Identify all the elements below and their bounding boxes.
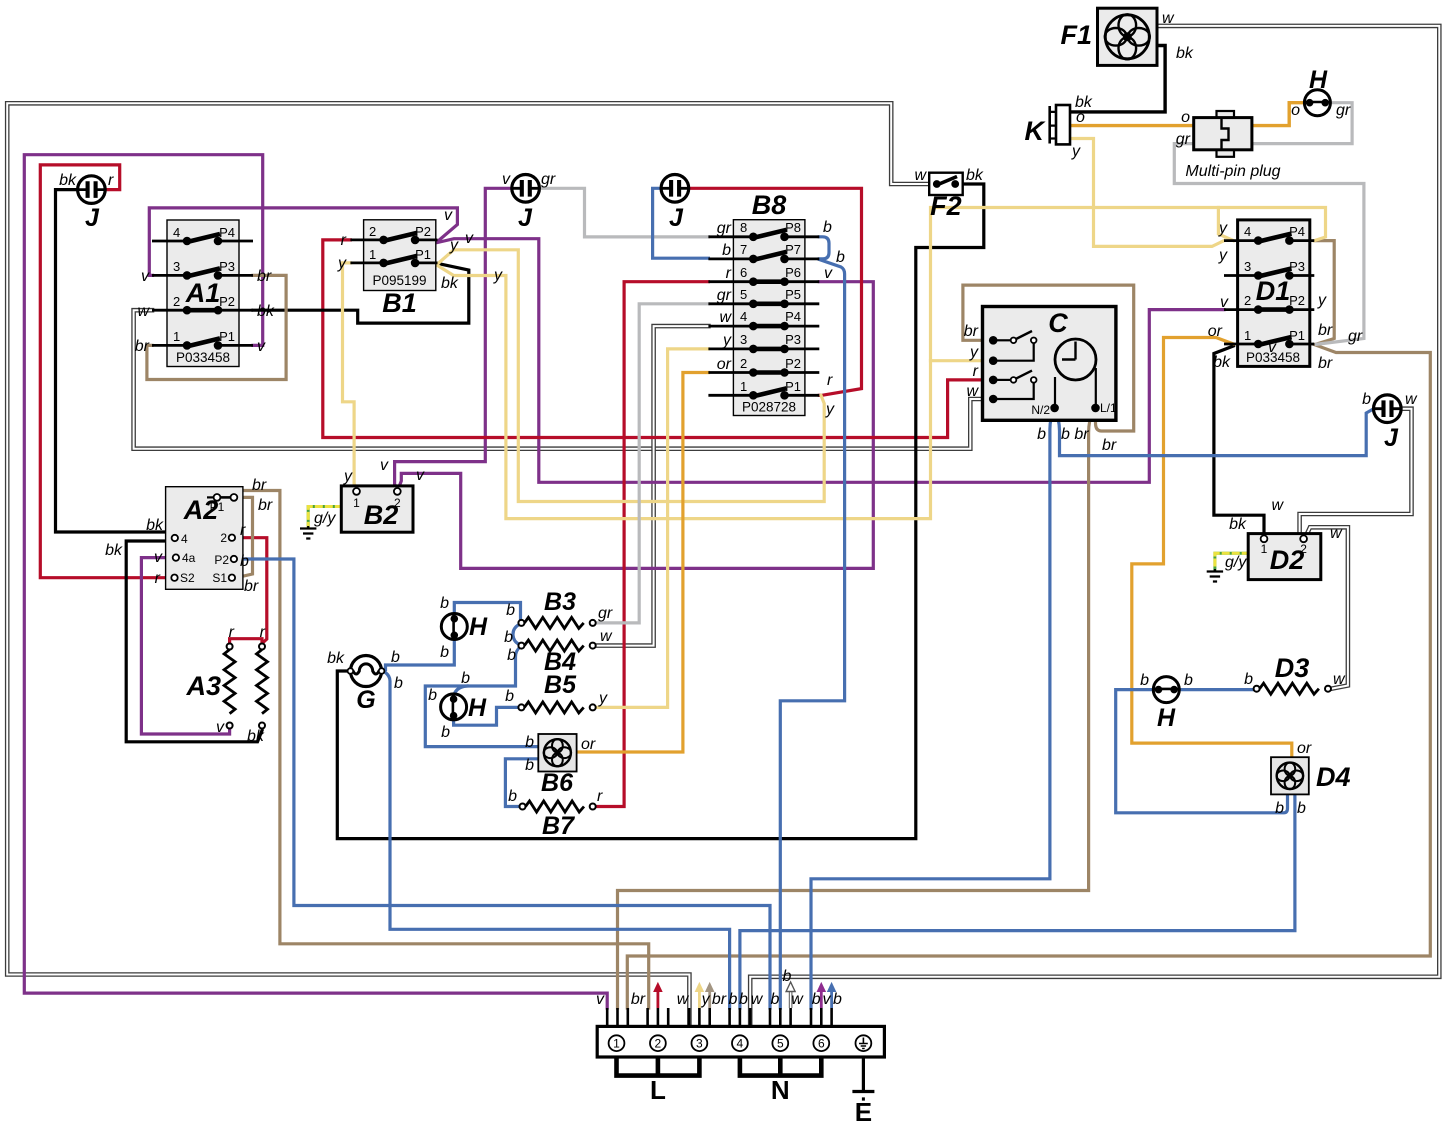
wire purple A3-left-bottom to A2-4a xyxy=(141,558,229,734)
svg-text:w: w xyxy=(791,991,804,1008)
svg-text:y: y xyxy=(449,237,459,254)
svg-text:4: 4 xyxy=(181,532,188,546)
svg-text:bk: bk xyxy=(441,275,459,292)
resistor B4 xyxy=(518,640,595,651)
svg-text:B5: B5 xyxy=(544,671,577,699)
svg-text:v: v xyxy=(465,230,474,247)
svg-text:2: 2 xyxy=(220,531,227,545)
svg-text:b: b xyxy=(508,788,517,805)
wire brown A2-P1 to terminal 2 xyxy=(236,491,649,1009)
svg-text:b: b xyxy=(391,649,400,666)
wire brown C-L/1 loop to C-br xyxy=(963,285,1134,431)
svg-text:bk: bk xyxy=(146,517,164,534)
svg-text:3: 3 xyxy=(740,332,747,347)
svg-text:b: b xyxy=(783,968,792,985)
svg-text:b: b xyxy=(729,991,738,1008)
svg-text:br: br xyxy=(1318,322,1333,339)
fan D4 xyxy=(1271,757,1309,794)
svg-text:r: r xyxy=(726,265,732,282)
wire blue D4-right to terminal 4 xyxy=(740,794,1295,1008)
switch block B8 xyxy=(708,220,819,416)
lamp J2 xyxy=(512,175,540,203)
svg-text:r: r xyxy=(260,624,266,641)
bracket L terminals 1-3 xyxy=(617,1057,700,1076)
svg-text:B7: B7 xyxy=(542,812,575,840)
timer box C xyxy=(983,307,1116,421)
svg-text:4: 4 xyxy=(737,1037,744,1051)
svg-text:y: y xyxy=(701,991,711,1008)
svg-text:b: b xyxy=(1362,391,1371,408)
svg-text:N/2: N/2 xyxy=(1031,403,1050,417)
svg-text:gr: gr xyxy=(541,171,556,188)
svg-text:w: w xyxy=(1333,671,1346,688)
svg-text:P2: P2 xyxy=(785,356,801,371)
svg-text:v: v xyxy=(141,268,150,285)
svg-text:A1: A1 xyxy=(185,278,221,308)
svg-text:b: b xyxy=(440,595,449,612)
svg-text:b: b xyxy=(1244,671,1253,688)
svg-text:1: 1 xyxy=(369,247,376,262)
wire orange B8-row2 to B6 xyxy=(577,373,709,753)
wire blue G to H1-bottom xyxy=(386,634,455,670)
svg-text:y: y xyxy=(722,332,732,349)
svg-text:gr: gr xyxy=(598,605,613,622)
svg-text:y: y xyxy=(969,344,979,361)
wire purple B1-P2 to D1-pin2 xyxy=(438,239,1225,483)
svg-text:b: b xyxy=(722,242,731,259)
switch block D1 xyxy=(1224,220,1314,367)
svg-text:b br: b br xyxy=(1061,426,1089,443)
wire grey H-lamp to plug right xyxy=(1252,103,1352,144)
svg-text:E: E xyxy=(855,1097,872,1124)
svg-text:w: w xyxy=(1330,525,1343,542)
svg-text:b: b xyxy=(525,734,534,751)
wire blue C-N/2 to terminal 6 xyxy=(811,409,1055,1008)
svg-text:4: 4 xyxy=(740,309,747,324)
svg-text:P1: P1 xyxy=(210,500,225,514)
svg-text:w: w xyxy=(137,303,150,320)
wire blue G to terminal 4 xyxy=(386,673,730,1009)
svg-text:w: w xyxy=(1405,391,1418,408)
svg-text:bk: bk xyxy=(966,167,984,184)
box D2 xyxy=(1248,534,1321,580)
svg-text:br: br xyxy=(252,477,267,494)
wire w B8-row4 to B4-right (double line) xyxy=(597,326,709,645)
svg-text:P2: P2 xyxy=(415,224,431,239)
svg-text:r: r xyxy=(973,363,979,380)
svg-text:b: b xyxy=(504,629,513,646)
svg-text:b: b xyxy=(1275,800,1284,817)
svg-text:b: b xyxy=(394,675,403,692)
svg-text:v: v xyxy=(216,719,225,736)
svg-text:bk: bk xyxy=(1213,354,1231,371)
wire yellow B1-P1 to D1-P4 (long top loop) xyxy=(438,208,1326,519)
svg-text:o: o xyxy=(1181,109,1190,126)
wire grey plug-gr loop to D1-P1 xyxy=(1174,144,1364,345)
svg-text:1: 1 xyxy=(1244,328,1251,343)
wire yellow B1-P1 to B8-P1 xyxy=(438,250,825,502)
wire blue C-N/2 to J4 xyxy=(1055,409,1374,456)
svg-text:B3: B3 xyxy=(544,588,576,616)
svg-text:w: w xyxy=(1162,10,1175,27)
wire w D2-2 to D3-right (double line) xyxy=(1306,527,1348,688)
svg-text:v: v xyxy=(502,171,511,188)
arrow white at terminal 5 xyxy=(786,982,795,1008)
svg-text:5: 5 xyxy=(740,287,747,302)
svg-text:b: b xyxy=(1297,800,1306,817)
arrow blue at terminal 6 right xyxy=(828,983,836,1008)
svg-text:G: G xyxy=(356,686,375,714)
svg-text:H: H xyxy=(1157,704,1176,732)
svg-text:v: v xyxy=(416,467,425,484)
svg-text:P2: P2 xyxy=(214,553,229,567)
svg-text:1: 1 xyxy=(1261,542,1268,556)
svg-text:br: br xyxy=(258,497,273,514)
svg-text:w: w xyxy=(1271,497,1284,514)
svg-text:P6: P6 xyxy=(785,265,801,280)
wire yellow B8-row3 to B5-right xyxy=(596,349,708,708)
svg-text:v: v xyxy=(1268,339,1277,356)
wire black F2 to G (big loop) xyxy=(337,184,984,839)
svg-text:b: b xyxy=(1184,672,1193,689)
wire blue B3-left B4-left arc xyxy=(513,625,520,645)
wire w J4 to D2-2 (double line) xyxy=(1300,409,1412,534)
svg-text:L: L xyxy=(650,1075,666,1105)
svg-text:y: y xyxy=(337,255,347,272)
svg-text:D1: D1 xyxy=(1256,276,1291,306)
svg-text:bk: bk xyxy=(1176,45,1194,62)
svg-text:gr: gr xyxy=(1176,131,1191,148)
svg-text:P8: P8 xyxy=(785,220,801,235)
svg-text:bk: bk xyxy=(59,172,77,189)
wire purple B2-2 to B8-P6 xyxy=(399,282,873,569)
svg-text:g/y: g/y xyxy=(1225,554,1247,571)
svg-text:br: br xyxy=(712,991,727,1008)
svg-text:B8: B8 xyxy=(752,190,787,220)
svg-text:2: 2 xyxy=(369,224,376,239)
svg-text:P028728: P028728 xyxy=(742,400,796,415)
wire grey B8-row5 to B3-right xyxy=(596,304,708,623)
svg-text:w: w xyxy=(677,991,690,1008)
wire blue B4-left to H2-top and B6 xyxy=(425,647,538,747)
svg-text:P5: P5 xyxy=(785,287,801,302)
svg-text:L/1: L/1 xyxy=(1100,401,1117,415)
svg-text:y: y xyxy=(1317,292,1327,309)
svg-text:r: r xyxy=(341,232,347,249)
svg-text:r: r xyxy=(240,522,246,539)
svg-text:2: 2 xyxy=(655,1037,662,1051)
lamp J3 xyxy=(661,175,689,203)
svg-text:or: or xyxy=(1297,740,1312,757)
svg-text:w: w xyxy=(719,309,732,326)
svg-text:P4: P4 xyxy=(1289,224,1305,239)
svg-text:P1: P1 xyxy=(1289,328,1305,343)
svg-text:g/y: g/y xyxy=(314,510,336,527)
svg-text:D3: D3 xyxy=(1275,653,1310,683)
switch block A1 xyxy=(152,220,253,367)
svg-text:2: 2 xyxy=(740,356,747,371)
svg-text:1: 1 xyxy=(613,1037,620,1051)
svg-text:H: H xyxy=(1309,66,1328,94)
svg-text:6: 6 xyxy=(818,1037,825,1051)
ground symbol at D2 xyxy=(1207,569,1223,582)
svg-text:bk: bk xyxy=(327,650,345,667)
svg-text:N: N xyxy=(771,1075,790,1105)
svg-text:S2: S2 xyxy=(180,571,195,585)
svg-text:P3: P3 xyxy=(785,332,801,347)
svg-text:bk: bk xyxy=(247,728,265,745)
svg-text:or: or xyxy=(1208,323,1223,340)
svg-text:v: v xyxy=(596,991,605,1008)
wire black J1 to A2-4 xyxy=(56,190,175,536)
svg-text:2: 2 xyxy=(1300,542,1307,556)
svg-text:bk: bk xyxy=(257,303,275,320)
svg-text:P4: P4 xyxy=(785,309,801,324)
svg-text:3: 3 xyxy=(696,1037,703,1051)
wire yellow branch to C-y input xyxy=(931,359,990,362)
svg-text:F2: F2 xyxy=(930,191,962,221)
svg-text:bk: bk xyxy=(1229,516,1247,533)
svg-text:D2: D2 xyxy=(1270,545,1305,575)
wire brown C-L/1 to terminal 1 xyxy=(618,410,1094,1008)
svg-text:P3: P3 xyxy=(1289,259,1305,274)
svg-text:y: y xyxy=(1218,220,1228,237)
svg-text:y: y xyxy=(343,468,353,485)
svg-text:gr: gr xyxy=(1348,328,1363,345)
svg-text:w: w xyxy=(914,167,927,184)
svg-text:br: br xyxy=(1318,355,1333,372)
svg-text:8: 8 xyxy=(740,220,747,235)
svg-text:v: v xyxy=(154,549,163,566)
svg-text:1: 1 xyxy=(173,329,180,344)
wire grey J2 to B8-row8 xyxy=(540,188,709,237)
svg-text:r: r xyxy=(229,624,235,641)
svg-text:b: b xyxy=(739,991,748,1008)
svg-text:b: b xyxy=(771,991,780,1008)
lamp J1 xyxy=(78,176,106,204)
svg-text:b: b xyxy=(461,670,470,687)
ground E below block xyxy=(852,1057,874,1099)
fan B6 xyxy=(538,734,576,772)
wire purple J2 to B2-2 xyxy=(395,188,512,488)
terminal stubs xyxy=(607,1008,831,1026)
svg-text:r: r xyxy=(827,372,833,389)
svg-text:b: b xyxy=(823,219,832,236)
wire black F1 to K xyxy=(1071,46,1166,112)
wire blue A2-P2 to terminal 5 xyxy=(238,559,770,1008)
svg-text:b: b xyxy=(506,602,515,619)
svg-text:br: br xyxy=(135,338,150,355)
svg-text:B1: B1 xyxy=(382,288,417,318)
svg-text:r: r xyxy=(108,172,114,189)
wire brown A2-P1 to A2-S1 loop xyxy=(236,497,253,577)
svg-text:P095199: P095199 xyxy=(372,273,426,288)
svg-text:J: J xyxy=(518,204,533,232)
wire purple B1-P2 to A1-pin3 xyxy=(149,208,457,276)
svg-text:b: b xyxy=(525,757,534,774)
svg-text:J: J xyxy=(85,204,100,232)
resistor B7 xyxy=(520,801,596,812)
wire red J3 to B8-P1 xyxy=(689,188,862,395)
arrow yellow at terminal 3 xyxy=(695,983,703,1008)
svg-text:v: v xyxy=(444,207,453,224)
wire orange D1-pin1 to D4 xyxy=(1132,338,1292,758)
wire white frame right: F1-w to terminal 4 (double line) xyxy=(750,26,1439,1026)
svg-text:b: b xyxy=(440,644,449,661)
wire yellow D1-pin4 branch from top loop xyxy=(1218,208,1233,241)
svg-text:P4: P4 xyxy=(219,225,235,240)
bracket N terminals 4-6 xyxy=(740,1057,821,1076)
svg-text:y: y xyxy=(598,690,608,707)
svg-text:P7: P7 xyxy=(785,242,801,257)
svg-text:F1: F1 xyxy=(1060,20,1092,50)
lamp H1 xyxy=(441,614,467,640)
wire yellow K-y to D1-pin4 xyxy=(1071,139,1225,247)
svg-text:v: v xyxy=(1220,294,1229,311)
svg-text:r: r xyxy=(597,788,603,805)
resistors A3 xyxy=(224,644,267,729)
svg-text:gr: gr xyxy=(1336,102,1351,119)
multi-pin plug xyxy=(1194,111,1252,157)
svg-text:or: or xyxy=(717,356,732,373)
svg-text:K: K xyxy=(1025,116,1047,146)
svg-text:v: v xyxy=(380,457,389,474)
wire black A1-P2 to B1-P1 xyxy=(253,264,469,324)
svg-text:C: C xyxy=(1048,308,1068,338)
svg-text:v: v xyxy=(257,338,266,355)
svg-text:2: 2 xyxy=(173,294,180,309)
svg-text:bk: bk xyxy=(105,542,123,559)
wire red B8-row6 to B7-right xyxy=(596,282,708,807)
svg-text:B6: B6 xyxy=(541,769,574,797)
wire brown D1-P4 to D1-P1 loop xyxy=(1314,241,1334,344)
wire blue H2-bottom to B5-left xyxy=(454,707,519,725)
svg-text:1: 1 xyxy=(740,379,747,394)
wire purple A1-P1 to terminal 1 (left big loop) xyxy=(24,155,607,1008)
wire g/y ground at D2 xyxy=(1215,553,1248,569)
svg-text:6: 6 xyxy=(740,265,747,280)
lamp H top right xyxy=(1304,90,1330,116)
fan motor F1 xyxy=(1098,8,1158,65)
ground symbol at B2 xyxy=(300,526,316,539)
wire brown D1-P1 to terminal 1 xyxy=(627,345,1430,1008)
arrow violet at terminal 6 xyxy=(817,983,825,1008)
svg-text:b: b xyxy=(428,687,437,704)
lamp H right xyxy=(1153,677,1179,703)
wire brown A1-P3 to A1-pin1 loop xyxy=(147,275,286,379)
svg-text:J: J xyxy=(669,204,684,232)
resistor D3 xyxy=(1254,683,1331,694)
lamp G xyxy=(348,656,385,687)
svg-text:4a: 4a xyxy=(182,551,196,565)
svg-text:3: 3 xyxy=(1244,259,1251,274)
svg-text:P1: P1 xyxy=(785,379,801,394)
svg-text:y: y xyxy=(825,401,835,418)
svg-text:7: 7 xyxy=(740,242,747,257)
svg-text:4: 4 xyxy=(1244,224,1251,239)
wire g/y ground at B2 xyxy=(308,507,341,527)
svg-text:w: w xyxy=(751,991,764,1008)
wire blue H2-top branch xyxy=(454,686,467,700)
relay box A2 xyxy=(166,487,243,590)
svg-text:P3: P3 xyxy=(219,259,235,274)
svg-text:b: b xyxy=(505,688,514,705)
svg-text:J: J xyxy=(1384,424,1399,452)
lamp J4 xyxy=(1374,395,1402,423)
svg-text:br: br xyxy=(1102,437,1117,454)
switch block B1 xyxy=(350,220,437,291)
svg-text:b: b xyxy=(812,991,821,1008)
svg-text:H: H xyxy=(469,613,488,641)
wire red J1 loop to A2-S2 xyxy=(40,165,171,578)
svg-text:P2: P2 xyxy=(219,294,235,309)
svg-text:5: 5 xyxy=(777,1037,784,1051)
svg-text:S1: S1 xyxy=(212,571,227,585)
connector K xyxy=(1050,105,1070,144)
wire blue H-right-lamp to D3-left xyxy=(1180,688,1253,691)
wire black D1-pin1 to D2-1 xyxy=(1214,346,1264,535)
wire yellow B1-1 to B2-1 xyxy=(343,263,357,488)
wire orange plug to H-lamp top right xyxy=(1252,103,1304,126)
svg-text:b: b xyxy=(836,249,845,266)
wire red A2-2 to A3 tops xyxy=(230,538,267,644)
svg-text:Multi-pin plug: Multi-pin plug xyxy=(1185,163,1280,180)
wire blue B8-P8/P7 bridge xyxy=(819,237,829,259)
svg-text:b: b xyxy=(240,553,249,570)
lamp H2 xyxy=(441,694,467,720)
svg-text:w: w xyxy=(966,383,979,400)
wire blue B8-P7 to terminal 5 xyxy=(780,260,844,1009)
svg-text:y: y xyxy=(493,267,503,284)
box B2 xyxy=(341,486,413,532)
svg-text:y: y xyxy=(1071,143,1081,160)
svg-text:P2: P2 xyxy=(1289,293,1305,308)
svg-text:b: b xyxy=(441,724,450,741)
svg-text:P1: P1 xyxy=(219,329,235,344)
svg-text:B2: B2 xyxy=(364,500,399,530)
wire blue H1-top to B3-left xyxy=(454,603,520,620)
arrow brown at terminal 3 right xyxy=(706,983,714,1008)
svg-text:v: v xyxy=(823,991,832,1008)
svg-text:D4: D4 xyxy=(1316,762,1351,792)
wire w A1-pin2 to C-w (double line) xyxy=(134,310,990,449)
svg-text:br: br xyxy=(244,578,259,595)
svg-text:y: y xyxy=(1218,247,1228,264)
wire black A2-4 to A3-right-bottom xyxy=(126,541,262,742)
svg-text:r: r xyxy=(155,570,161,587)
resistor B3 xyxy=(518,617,595,628)
arrow red at terminal 2 xyxy=(654,983,662,1008)
resistor B5 xyxy=(518,702,595,713)
wire white frame left: F2-w to terminal 3 (double line) xyxy=(7,103,929,1026)
svg-text:b: b xyxy=(833,991,842,1008)
wire blue B6-lower-left to B7-left xyxy=(505,759,538,807)
svg-text:gr: gr xyxy=(717,287,732,304)
svg-text:H: H xyxy=(468,694,487,722)
wire blue J3 to B8-row7 xyxy=(653,188,709,258)
svg-text:3: 3 xyxy=(173,259,180,274)
svg-text:1: 1 xyxy=(353,496,360,510)
svg-text:v: v xyxy=(824,265,833,282)
switch F2 xyxy=(929,173,963,195)
svg-text:o: o xyxy=(1291,102,1300,119)
svg-text:b: b xyxy=(1037,426,1046,443)
svg-text:w: w xyxy=(600,628,613,645)
wire blue H-right-lamp to D4-left xyxy=(1116,690,1288,813)
svg-text:br: br xyxy=(964,323,979,340)
svg-text:4: 4 xyxy=(173,225,180,240)
svg-text:o: o xyxy=(1076,109,1085,126)
